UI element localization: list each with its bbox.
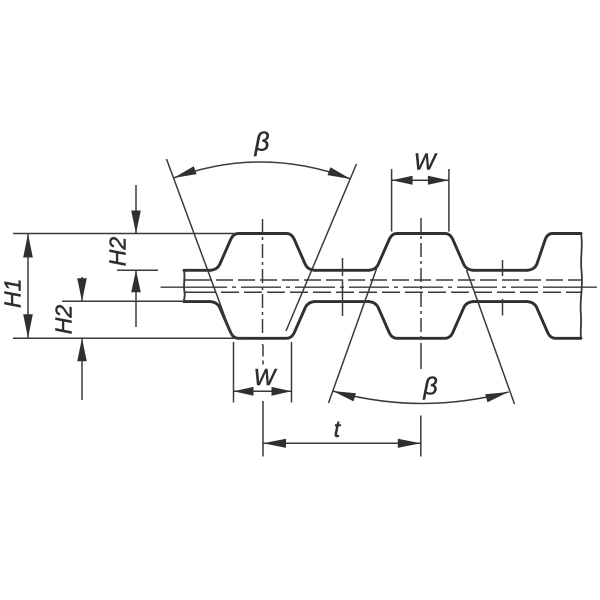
H2 lower tick line bbox=[62, 300, 183, 302]
belt band top surface bbox=[184, 269, 527, 272]
gap center mark 1 bbox=[342, 258, 344, 316]
beta diagonal L2 bbox=[329, 266, 378, 403]
H1 arrow up bbox=[23, 234, 33, 258]
gap center mark 2 bbox=[502, 260, 504, 316]
H1 bottom extension line bbox=[13, 337, 242, 339]
top tooth 1 bbox=[210, 234, 315, 271]
W top dimension line bbox=[392, 179, 449, 181]
svg-text:H2: H2 bbox=[105, 237, 131, 267]
H2 lower arrow down bbox=[77, 278, 87, 301]
W top arrow right bbox=[428, 176, 449, 185]
t dim right extension bbox=[420, 416, 422, 457]
W bottom dimension line bbox=[234, 390, 292, 392]
top beta arc arrow right bbox=[328, 167, 351, 179]
left break edge bbox=[183, 270, 186, 301]
tooth 1 vertical center line bbox=[262, 219, 264, 345]
right break edge bbox=[581, 234, 582, 339]
W top extension lines bbox=[392, 169, 449, 232]
svg-text:W: W bbox=[254, 364, 278, 390]
svg-text:W: W bbox=[414, 149, 438, 175]
belt band bottom surface bbox=[184, 300, 527, 303]
bottom beta arc arrow right bbox=[485, 392, 508, 402]
H1 top extension line bbox=[13, 233, 236, 235]
H1 dimension line bbox=[27, 234, 29, 339]
top tooth 3 partial bbox=[527, 234, 581, 271]
bottom beta arc arrow left bbox=[333, 391, 356, 401]
H2 upper arrow down bbox=[131, 211, 141, 234]
H1 arrow down bbox=[23, 314, 33, 338]
beta diagonal R2 bbox=[467, 270, 515, 404]
cord dashed line upper bbox=[185, 279, 211, 281]
t arrow left bbox=[263, 439, 286, 448]
H2 lower arrow up bbox=[77, 338, 87, 361]
svg-text:H1: H1 bbox=[0, 279, 26, 308]
svg-text:H2: H2 bbox=[51, 305, 77, 335]
beta diagonal R1 bbox=[286, 164, 357, 331]
svg-text:β: β bbox=[254, 127, 270, 157]
bottom tooth 2 bbox=[369, 302, 474, 339]
H2 upper tick line bbox=[117, 269, 158, 271]
cord dashed line lower bbox=[184, 291, 216, 293]
top tooth 2 bbox=[369, 234, 474, 271]
beta diagonal L1 bbox=[167, 159, 233, 336]
H2 lower dim shafts bbox=[81, 277, 83, 400]
top beta arc bbox=[174, 162, 351, 179]
top beta arc arrow left bbox=[174, 166, 197, 178]
tooth 2 vertical center line bbox=[420, 218, 422, 345]
t dimension line bbox=[263, 442, 421, 444]
W top arrow left bbox=[392, 176, 413, 185]
tooth 2 center line below bbox=[420, 345, 422, 369]
svg-text:β: β bbox=[422, 373, 437, 401]
svg-text:t: t bbox=[334, 416, 342, 442]
pitch center line bbox=[161, 286, 228, 288]
W bottom arrow left bbox=[234, 387, 254, 396]
bottom tooth 1 bbox=[210, 302, 315, 339]
bottom tooth 3 partial bbox=[527, 302, 581, 339]
H2 upper arrow up bbox=[131, 270, 141, 292]
t arrow right bbox=[398, 439, 421, 448]
W bottom arrow right bbox=[272, 387, 292, 396]
t dim left extension bbox=[262, 345, 264, 457]
bottom beta arc bbox=[333, 391, 509, 403]
H2 upper dim shafts bbox=[135, 185, 137, 327]
W bottom extension lines bbox=[234, 342, 292, 403]
